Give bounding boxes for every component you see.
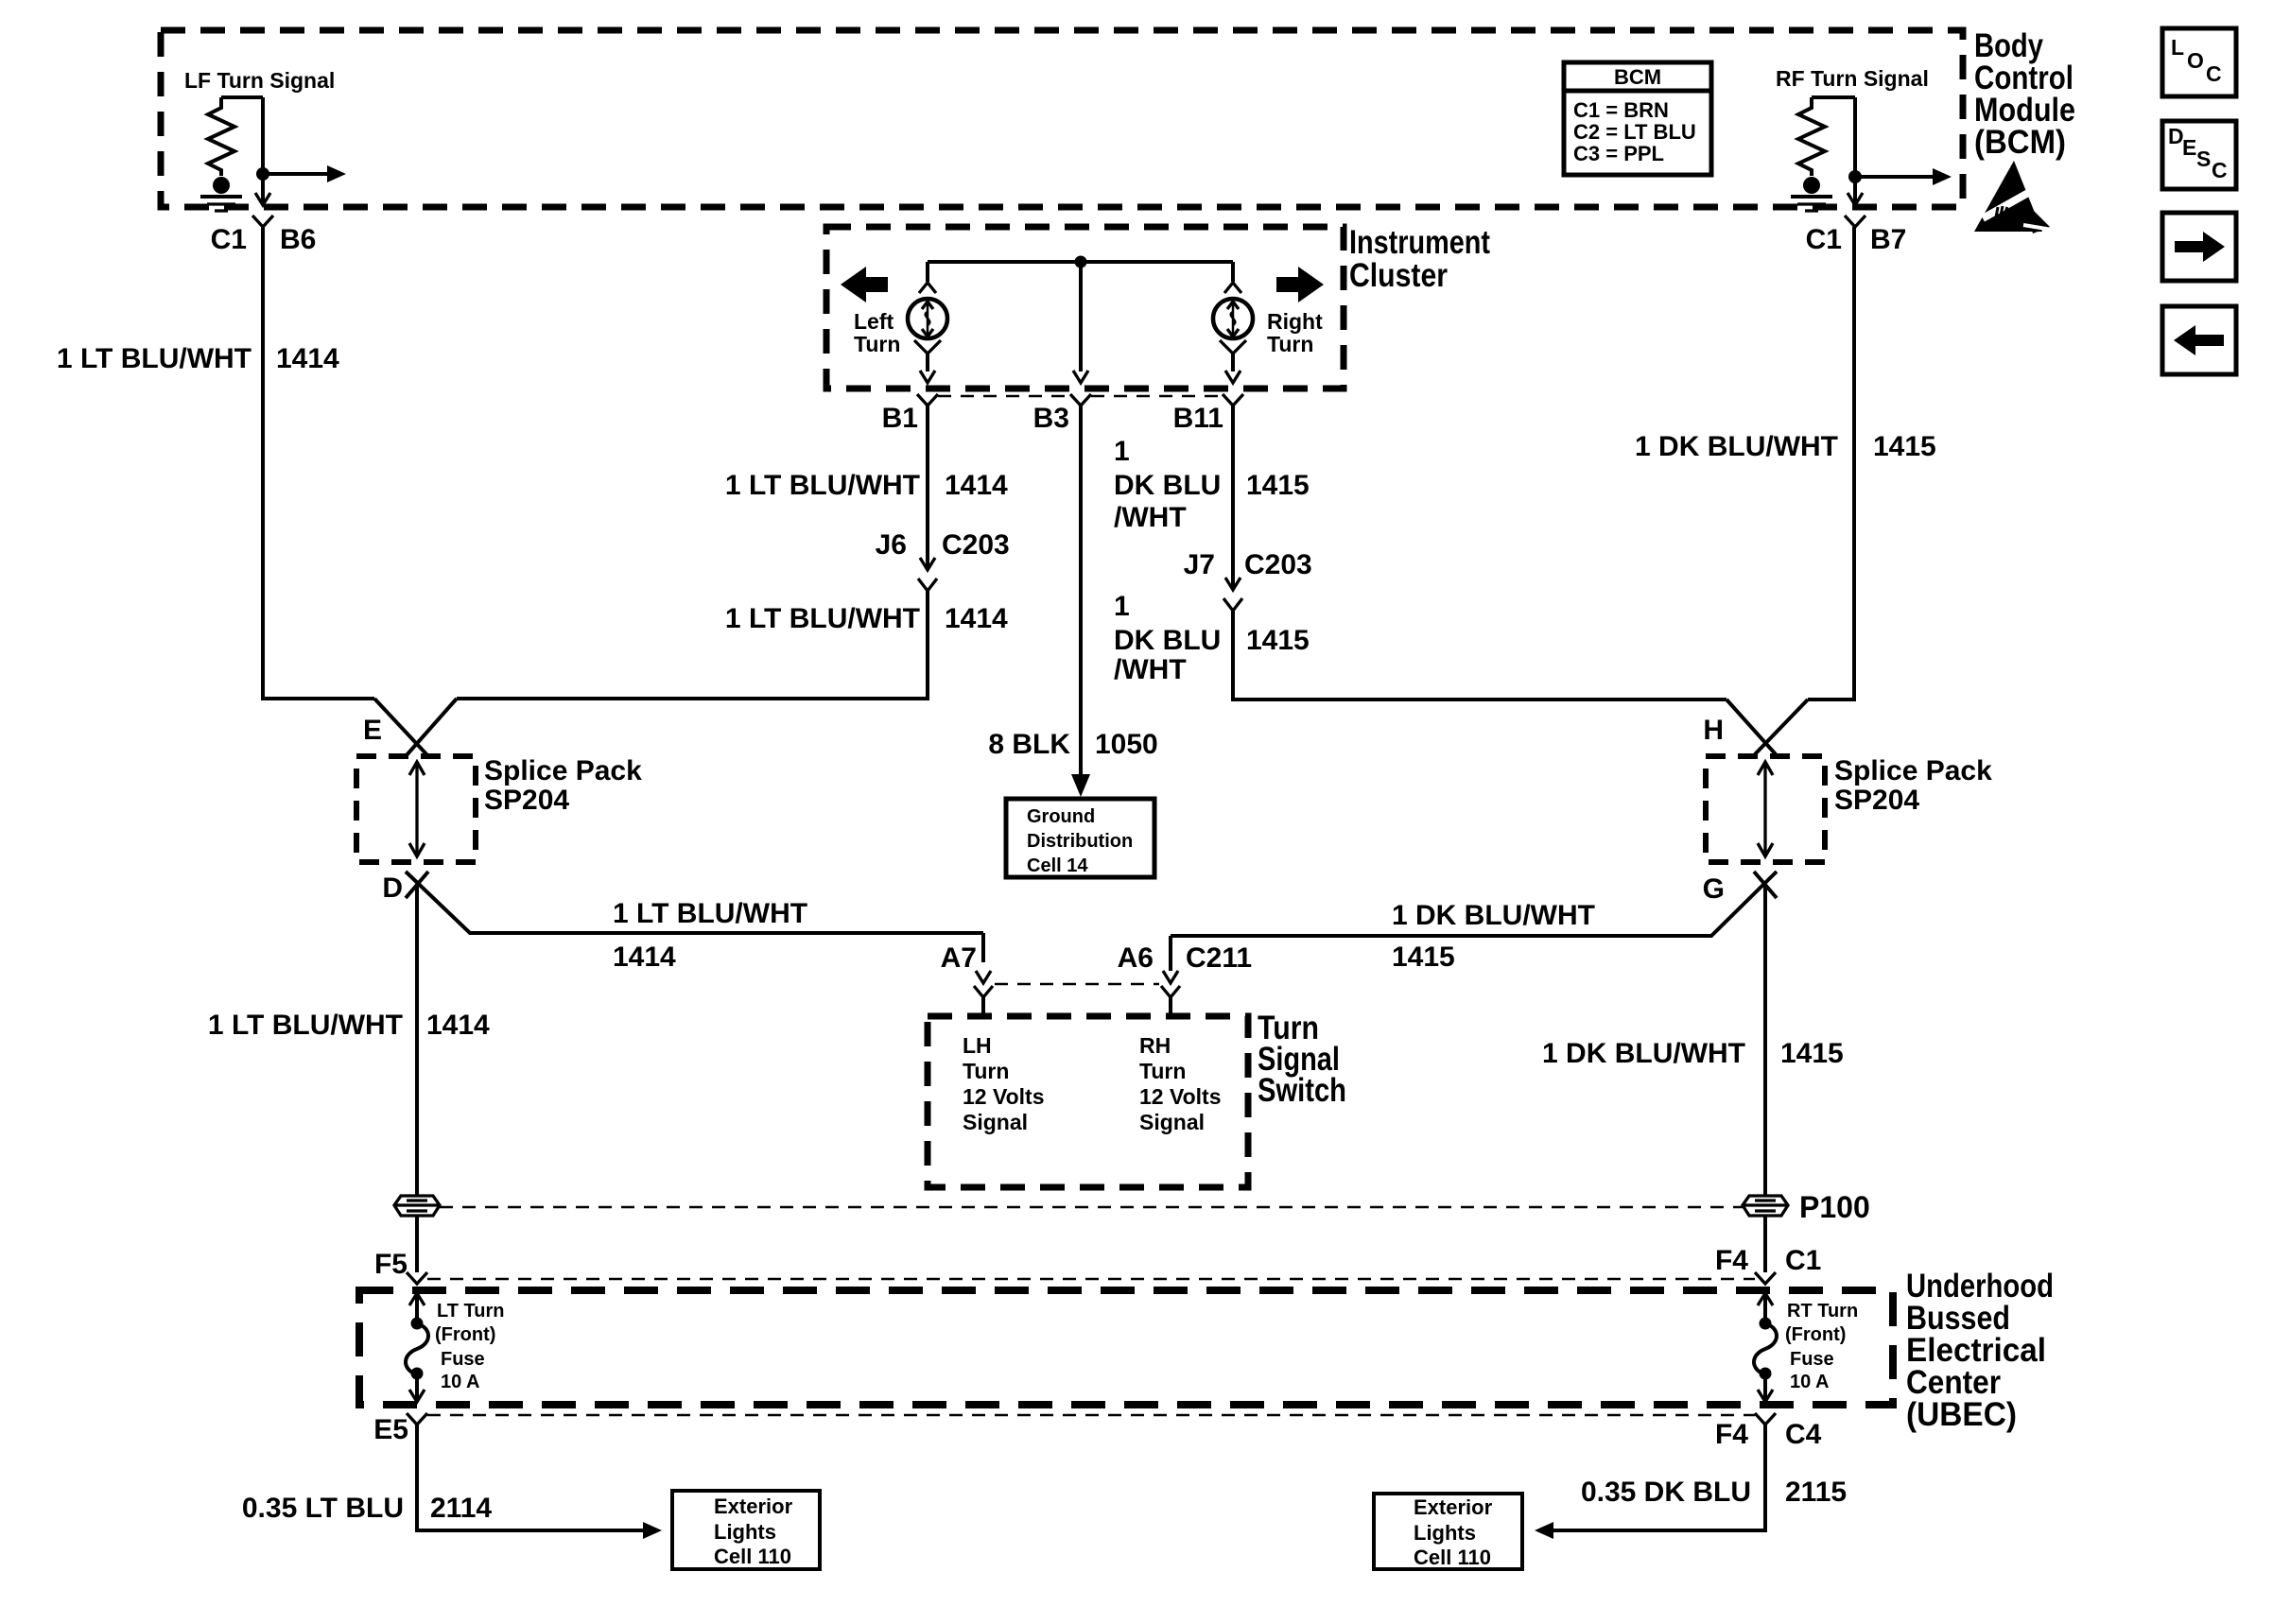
ESD sensitivity symbol: [1974, 161, 2057, 233]
fuse LT Turn (Front) 10 A: [406, 1293, 428, 1402]
ground (LF): [200, 177, 242, 211]
pin labels F4 C4: [1715, 1419, 1822, 1450]
svg-text:DK BLU: DK BLU: [1114, 625, 1221, 656]
svg-text:C203: C203: [942, 529, 1010, 561]
pin labels B1 B3 B11: [882, 403, 1223, 434]
svg-text:E: E: [363, 715, 382, 746]
svg-text:B3: B3: [1033, 403, 1069, 434]
wire label 8 BLK 1050: [988, 729, 1157, 760]
svg-text:(Front): (Front): [1785, 1324, 1846, 1345]
RH Turn 12 Volts Signal labels: [1139, 1033, 1222, 1134]
svg-text:1414: 1414: [276, 343, 339, 374]
connector chevron F4/C1: [1755, 1272, 1776, 1284]
svg-text:Signal: Signal: [963, 1110, 1028, 1134]
connector dashed line UBEC top: [427, 1278, 1755, 1281]
Splice Pack SP204 right box: [1706, 755, 1992, 862]
wire arrow to BCM internal (RF): [1855, 168, 1952, 185]
svg-text:E: E: [2182, 135, 2196, 160]
wire cluster top bus: [928, 260, 1233, 264]
svg-text:1415: 1415: [1873, 431, 1936, 462]
Right Turn lamp labels: [1267, 309, 1323, 356]
svg-text:C1 = BRN: C1 = BRN: [1573, 98, 1669, 122]
inline connector J7 C203: [1184, 549, 1312, 611]
svg-text:C3 = PPL: C3 = PPL: [1573, 142, 1664, 165]
svg-text:Lights: Lights: [1414, 1521, 1476, 1545]
wire label 0.35 DK BLU 2115: [1581, 1477, 1847, 1508]
wire label 1 LT BLU/WHT 1414 (to A7): [613, 898, 807, 973]
svg-text:1414: 1414: [945, 603, 1008, 634]
svg-text:LH: LH: [963, 1033, 992, 1058]
svg-text:C2 = LT BLU: C2 = LT BLU: [1573, 120, 1696, 144]
svg-text:C211: C211: [1186, 942, 1252, 974]
wire D down to P100: [415, 884, 419, 1195]
Body Control Module (BCM) title: [1974, 27, 2075, 161]
node E splice junction: [363, 699, 457, 756]
svg-text:B6: B6: [280, 224, 316, 255]
fuse RT Turn (Front) 10 A: [1754, 1293, 1777, 1402]
svg-text:10 A: 10 A: [441, 1372, 480, 1392]
svg-text:C1: C1: [1806, 224, 1842, 255]
svg-text:12 Volts: 12 Volts: [963, 1084, 1045, 1109]
node junction dot LF: [256, 167, 269, 181]
wire 2115 to Exterior Lights: [1535, 1425, 1765, 1539]
svg-text:Instrument: Instrument: [1349, 224, 1490, 261]
Turn Signal Switch title: [1258, 1010, 1346, 1109]
node G splice output: [1171, 872, 1777, 936]
svg-text:RH: RH: [1139, 1033, 1171, 1058]
wire into A6: [1169, 936, 1172, 971]
Exterior Lights Cell 110 box right: [1374, 1494, 1522, 1569]
svg-text:C4: C4: [1785, 1419, 1822, 1450]
svg-text:Turn: Turn: [963, 1059, 1009, 1083]
svg-text:Lights: Lights: [714, 1520, 776, 1544]
svg-text:B11: B11: [1173, 403, 1223, 434]
svg-text:1 DK BLU/WHT: 1 DK BLU/WHT: [1635, 431, 1838, 462]
wire label 1 LT BLU/WHT 1414 (D lower): [208, 1010, 490, 1041]
BCM connector table: [1564, 62, 1711, 175]
svg-text:C: C: [2206, 61, 2222, 86]
svg-text:A6: A6: [1118, 942, 1154, 974]
svg-text:LT Turn: LT Turn: [437, 1301, 504, 1322]
pin label F5: [374, 1249, 408, 1280]
fuse labels LT Turn (Front) Fuse 10 A: [435, 1301, 504, 1392]
Instrument Cluster title: [1349, 224, 1490, 294]
node D splice output: [382, 872, 983, 933]
svg-text:10 A: 10 A: [1790, 1372, 1830, 1392]
svg-text:0.35 DK BLU: 0.35 DK BLU: [1581, 1477, 1751, 1508]
svg-text:Splice Pack: Splice Pack: [1834, 755, 1992, 786]
svg-text:(UBEC): (UBEC): [1906, 1396, 2017, 1433]
svg-text:Cell 110: Cell 110: [714, 1545, 791, 1568]
svg-text:Turn: Turn: [854, 332, 900, 356]
Ground Distribution Cell 14 box: [1006, 799, 1154, 877]
svg-text:Turn: Turn: [1267, 332, 1313, 356]
wire 1414 from B6 (left outer): [263, 227, 374, 699]
svg-text:(Front): (Front): [435, 1324, 495, 1345]
wire 8 BLK 1050 ground lead: [1071, 406, 1090, 797]
connector chevron F4/C4: [1755, 1413, 1776, 1425]
svg-text:Cell 14: Cell 14: [1027, 855, 1088, 876]
wire G down to P100: [1763, 884, 1767, 1195]
right turn indicator arrow icon: [1276, 267, 1324, 302]
svg-text:1415: 1415: [1246, 470, 1310, 501]
wire label 1 LT BLU/WHT 1414 (B1 lower): [725, 603, 1008, 634]
svg-text:1 LT BLU/WHT: 1 LT BLU/WHT: [208, 1010, 403, 1041]
svg-text:Exterior: Exterior: [714, 1494, 793, 1518]
svg-text:F4: F4: [1715, 1245, 1748, 1276]
left arrow reference box: [2162, 306, 2236, 374]
P100 label: [1799, 1190, 1870, 1224]
pin label C1 / B6: [211, 224, 317, 255]
indicator lamp Right Turn: [1213, 262, 1253, 371]
wire B3 down inside cluster: [1079, 262, 1083, 371]
wire label 0.35 LT BLU 2114: [242, 1493, 493, 1524]
fuse labels RT Turn (Front) Fuse 10 A: [1785, 1301, 1858, 1392]
svg-text:S: S: [2196, 147, 2211, 171]
svg-text:1 LT BLU/WHT: 1 LT BLU/WHT: [725, 470, 920, 501]
svg-text:0.35 LT BLU: 0.35 LT BLU: [242, 1493, 404, 1524]
wire F4/C1 lead: [1763, 1217, 1767, 1272]
svg-text:C: C: [2212, 158, 2228, 182]
node H splice junction: [1703, 700, 1808, 754]
resistor RF Turn Signal: [1798, 97, 1855, 176]
connector dashed line P100: [440, 1206, 1743, 1209]
svg-text:Exterior: Exterior: [1414, 1495, 1493, 1519]
connector dashed line UBEC bottom: [427, 1414, 1755, 1417]
Underhood Bussed Electrical Center dashed box: [359, 1290, 1893, 1405]
svg-text:Fuse: Fuse: [441, 1349, 485, 1370]
wire RF down from resistor: [1853, 97, 1857, 205]
svg-text:D: D: [382, 872, 403, 904]
svg-text:Fuse: Fuse: [1790, 1349, 1834, 1370]
node junction dot RF: [1848, 170, 1862, 183]
wire into A7: [981, 933, 985, 962]
wire 2114 to Exterior Lights: [417, 1425, 662, 1539]
svg-text:J7: J7: [1184, 549, 1215, 580]
svg-text:E5: E5: [373, 1414, 408, 1445]
connector arrow into cluster border (B11): [1223, 371, 1243, 406]
wire label 1 DK BLU/WHT 1415 (right outer): [1635, 431, 1936, 462]
svg-text:1: 1: [1114, 591, 1130, 622]
svg-text:1 DK BLU/WHT: 1 DK BLU/WHT: [1542, 1038, 1745, 1069]
svg-text:1 DK BLU/WHT: 1 DK BLU/WHT: [1392, 900, 1595, 931]
UBEC title: [1906, 1268, 2054, 1433]
svg-text:1050: 1050: [1095, 729, 1158, 760]
Exterior Lights Cell 110 box left: [672, 1491, 820, 1569]
connector arrow into border (LF): [252, 193, 273, 227]
svg-text:L: L: [2171, 35, 2184, 60]
pin label C1 / B7: [1806, 224, 1907, 255]
inline connector P100 right: [1743, 1196, 1788, 1216]
svg-text:1 LT BLU/WHT: 1 LT BLU/WHT: [725, 603, 920, 634]
wire B11 down to splice bus: [1233, 406, 1726, 700]
RF Turn Signal label: [1776, 66, 1929, 91]
svg-text:1: 1: [1114, 436, 1130, 467]
svg-text:C1: C1: [211, 224, 247, 255]
svg-text:H: H: [1703, 715, 1724, 746]
Splice Pack SP204 left box: [356, 755, 642, 862]
svg-text:Turn: Turn: [1139, 1059, 1186, 1083]
resistor LF Turn Signal: [208, 97, 263, 176]
pin label E5: [373, 1414, 408, 1445]
DESC reference box: [2162, 121, 2236, 189]
svg-text:2115: 2115: [1785, 1477, 1847, 1508]
svg-text:Distribution: Distribution: [1027, 831, 1133, 852]
svg-text:Switch: Switch: [1258, 1072, 1346, 1109]
Turn Signal Switch dashed box: [928, 1016, 1248, 1187]
connector chevron E5: [407, 1413, 427, 1425]
svg-text:C1: C1: [1785, 1245, 1821, 1276]
wire label 1 DK BLU/WHT 1415 (B11 upper): [1114, 436, 1310, 533]
svg-text:Signal: Signal: [1139, 1110, 1205, 1134]
svg-text:Left: Left: [854, 309, 894, 334]
svg-text:/WHT: /WHT: [1114, 502, 1187, 533]
svg-text:O: O: [2187, 48, 2204, 73]
LOC reference box: [2162, 28, 2236, 96]
svg-text:1414: 1414: [426, 1010, 490, 1041]
node junction dot cluster bus: [1075, 256, 1087, 268]
wire LF down from resistor: [261, 97, 265, 205]
Instrument Cluster dashed box: [826, 227, 1344, 389]
LF Turn Signal label: [184, 68, 335, 93]
pin labels F4 C1: [1715, 1245, 1821, 1276]
svg-text:1 LT BLU/WHT: 1 LT BLU/WHT: [57, 343, 252, 374]
Left Turn lamp labels: [854, 309, 900, 356]
connector arrow A7: [974, 971, 993, 1016]
svg-text:1 LT BLU/WHT: 1 LT BLU/WHT: [613, 898, 807, 929]
svg-text:LF Turn Signal: LF Turn Signal: [184, 68, 335, 93]
svg-text:SP204: SP204: [484, 785, 569, 816]
svg-text:1415: 1415: [1392, 942, 1455, 973]
svg-text:Right: Right: [1267, 309, 1323, 334]
svg-text:RT Turn: RT Turn: [1787, 1301, 1858, 1322]
svg-text:RF Turn Signal: RF Turn Signal: [1776, 66, 1929, 91]
svg-text:F4: F4: [1715, 1419, 1748, 1450]
inline connector J6 C203: [876, 529, 1010, 591]
connector dashed line C cluster: [938, 395, 1223, 398]
svg-text:F5: F5: [374, 1249, 408, 1280]
inline connector P100 left: [394, 1196, 440, 1216]
connector arrow into border (RF): [1845, 193, 1865, 227]
svg-text:C203: C203: [1244, 549, 1312, 580]
svg-text:Cluster: Cluster: [1349, 257, 1448, 294]
svg-text:Ground: Ground: [1027, 806, 1095, 827]
connector arrow into cluster border (B1): [917, 371, 938, 406]
svg-text:1415: 1415: [1780, 1038, 1844, 1069]
wire label 1 DK BLU/WHT 1415 (G lower): [1542, 1038, 1844, 1069]
connector arrow A6: [1161, 971, 1180, 1016]
svg-text:1415: 1415: [1246, 625, 1310, 656]
left turn indicator arrow icon: [841, 267, 888, 302]
wire arrow to BCM internal (LF): [263, 165, 346, 182]
svg-text:P100: P100: [1799, 1190, 1870, 1224]
svg-text:12 Volts: 12 Volts: [1139, 1084, 1222, 1109]
wire F5 lead: [415, 1217, 419, 1272]
svg-text:A7: A7: [941, 942, 977, 974]
LH Turn 12 Volts Signal labels: [963, 1033, 1045, 1134]
pin labels A7 A6 C211: [941, 942, 1252, 974]
svg-text:1414: 1414: [945, 470, 1008, 501]
svg-text:1414: 1414: [613, 942, 676, 973]
svg-text:Cell 110: Cell 110: [1414, 1546, 1491, 1569]
svg-text:(BCM): (BCM): [1974, 124, 2066, 161]
wire label 1 DK BLU/WHT 1415 (B11 lower): [1114, 591, 1310, 685]
wire label 1 LT BLU/WHT 1414 (B1 upper): [725, 470, 1008, 501]
svg-text:DK BLU: DK BLU: [1114, 470, 1221, 501]
svg-text:8 BLK: 8 BLK: [988, 729, 1070, 760]
indicator lamp Left Turn: [908, 262, 947, 371]
connector dashed line C211: [995, 983, 1159, 986]
wire 1415 from B7 (right outer): [1808, 227, 1854, 700]
wire B1 down to splice bus: [457, 406, 928, 699]
svg-text:B1: B1: [882, 403, 918, 434]
wire label 1 DK BLU/WHT 1415 (to A6): [1392, 900, 1595, 973]
svg-text:/WHT: /WHT: [1114, 654, 1187, 685]
svg-text:BCM: BCM: [1614, 65, 1661, 89]
svg-text:2114: 2114: [430, 1493, 492, 1524]
connector arrow into cluster border (B3): [1070, 371, 1091, 406]
svg-text:J6: J6: [876, 529, 907, 561]
wire label 1 LT BLU/WHT 1414 (left outer): [57, 343, 339, 374]
BCM module dashed box: [161, 30, 1963, 207]
svg-text:SP204: SP204: [1834, 785, 1919, 816]
connector chevron F5: [407, 1272, 427, 1284]
svg-text:G: G: [1703, 873, 1725, 905]
ground (RF): [1791, 177, 1832, 211]
svg-text:Splice Pack: Splice Pack: [484, 755, 642, 786]
right arrow reference box: [2162, 213, 2236, 281]
svg-text:B7: B7: [1870, 224, 1906, 255]
